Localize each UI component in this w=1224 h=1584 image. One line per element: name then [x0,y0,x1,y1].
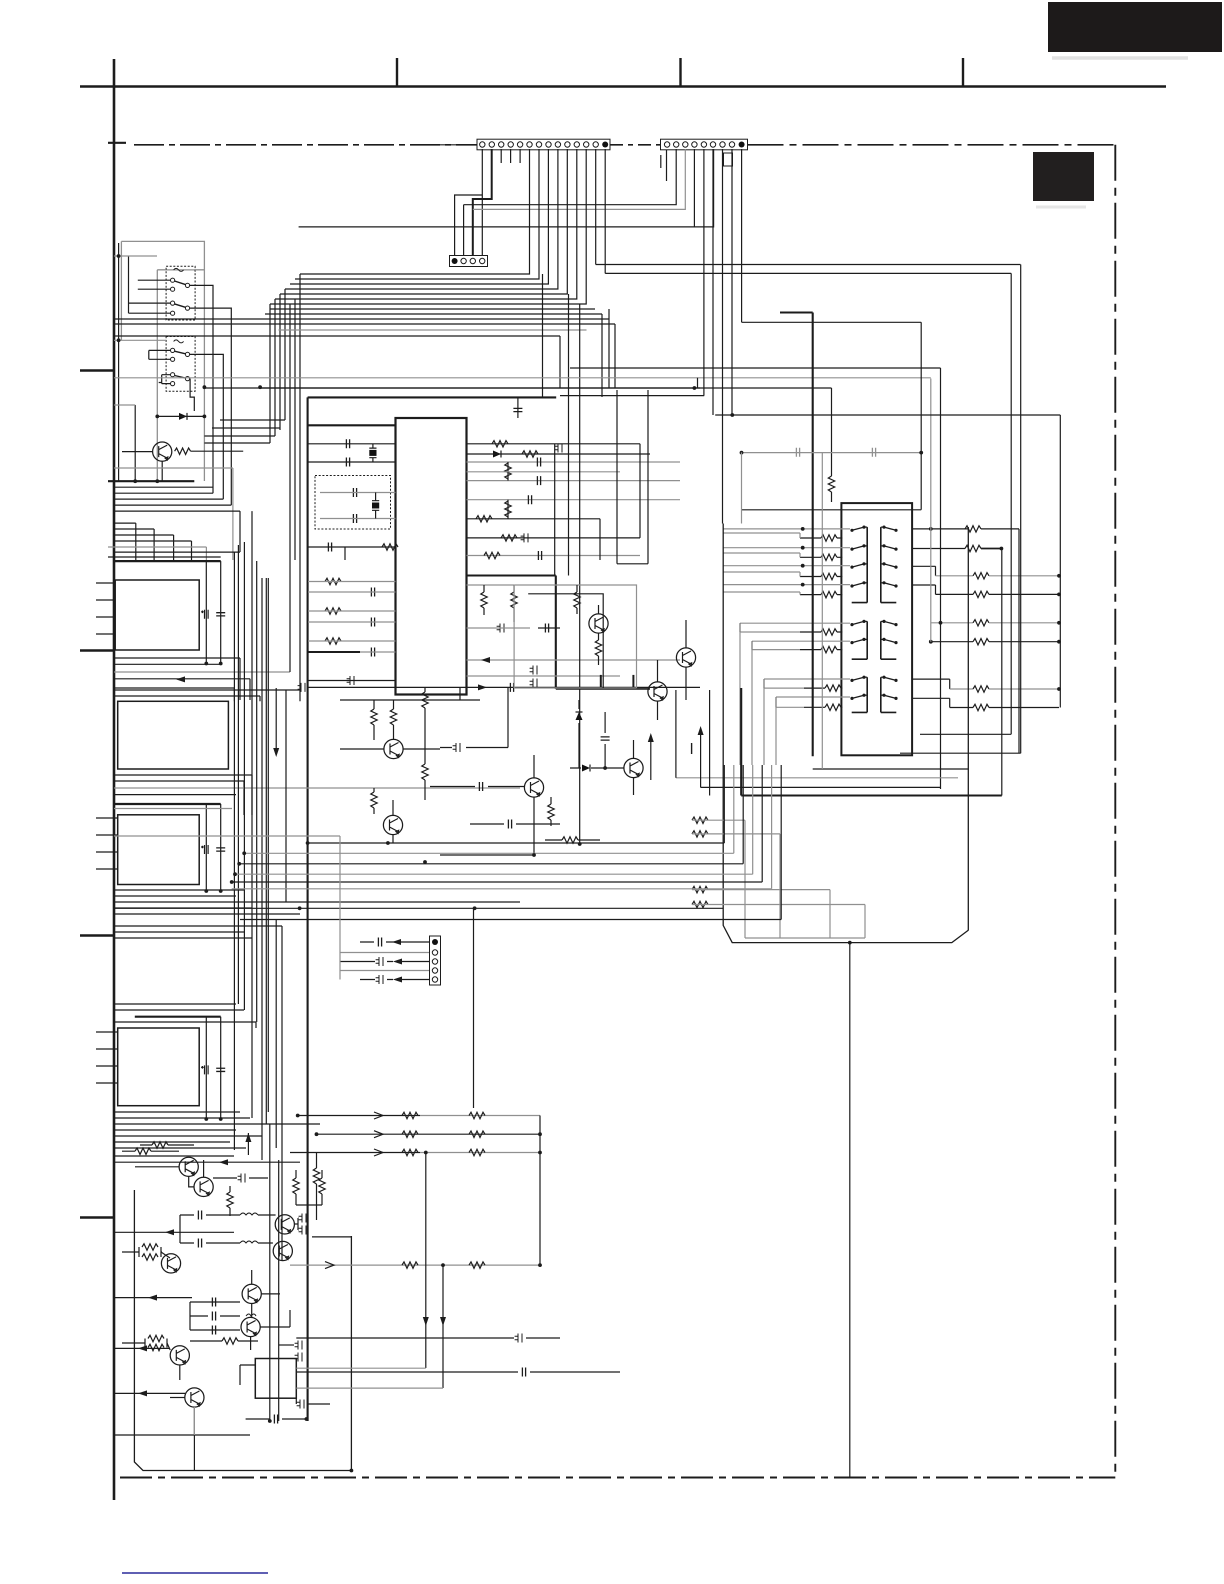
board border top left seg [134,144,477,146]
B3 cap wire a [205,804,207,891]
CN2 wire 703 down [703,149,705,396]
grey cap row 452 [742,452,922,454]
bottom container outline [134,1190,351,1471]
res R12 [481,592,487,608]
long row from left [299,149,714,227]
feeder jog rows group1 [723,533,800,595]
wire IC right r5 [467,518,601,520]
row 1265 [290,1264,540,1266]
res col left r6 [821,646,837,652]
res right row1 [912,528,969,530]
wire r13 [513,585,515,622]
wire Q4 stub [657,660,659,720]
row y552 [114,551,240,553]
vertical 822 grey [821,452,823,769]
long grey pair row a [114,835,340,837]
ferrite FB23 [297,1400,304,1409]
bold rail into IC [308,424,396,426]
cap C4 [346,439,349,448]
grey long row 1388 [296,1387,443,1389]
B1 cap wire a [205,561,207,663]
block B1 [115,580,199,650]
cap C8 [371,618,374,627]
transistor Q4 [648,682,667,701]
feeder rows group1 [723,529,850,585]
CN1 long vertical a [595,149,597,265]
transistor Q15 [241,1317,260,1336]
bus row 4 [235,765,753,874]
res R10 [501,535,517,541]
wire c14 [538,627,560,629]
IC2 box [255,1359,296,1399]
ferrite FB5 [530,666,537,675]
vertical 940 mid [940,368,942,789]
corner row 264 [596,264,1021,266]
res col left r5 [821,629,837,635]
wire C4 row [308,443,396,445]
wrap row 769 [813,768,969,770]
B3 cap Cb [216,848,225,851]
connector CN2 pins [664,142,744,148]
vertical 580 long [579,304,581,844]
ferrite FB1 [347,676,354,685]
arrow row 1232 [114,1231,234,1233]
right col dots [1057,574,1061,578]
B4 cap wire b [220,1017,222,1119]
wire IC right r1 [467,443,641,445]
wire into CN1 [440,144,477,146]
wire D1 row [157,415,204,417]
CN2 stub pin a [660,155,662,168]
board res r2 [692,831,708,837]
rows below B1 deep [114,690,300,701]
channel vertical 276 [275,920,277,1148]
CN2 wire 741 down [741,149,743,322]
bold vertical 741 low [740,688,742,796]
ferrite CN4 e [376,975,383,984]
vertical 676 [675,690,677,778]
CN1 vertical into IC b [566,293,568,295]
vertical 426 down [425,1153,427,1369]
long grey row 376 [114,377,931,379]
wire C2 [320,492,396,494]
block B3 [118,815,200,885]
CN1 bundle wire 5 [280,149,567,294]
row y557 [108,556,221,558]
relay RY1 box [166,266,195,320]
rows above B4 a [114,1004,256,1028]
wire bottom row 687 [308,686,700,688]
res R13 [511,592,517,608]
arrow row 1162 [114,1161,300,1163]
board border top right seg [748,144,1116,146]
res col left r8 [825,704,841,710]
grey box mid [514,585,636,688]
wire RY2 in row2 [149,358,171,360]
grey long row 1368 [296,1367,426,1369]
wire CN4 d [340,970,429,972]
res col left r4 [821,591,837,597]
wire IC right r7 [467,555,641,557]
channel vertical 244 [243,542,245,1010]
long row 319 [114,318,609,320]
CN1 bundle wire 4 [285,149,558,289]
board border top mid seg [610,144,661,146]
cap C15 [510,683,513,692]
CN2 wire 713 down [712,149,714,415]
frame tick top 1 [396,58,398,86]
page frame top rule [80,85,1166,88]
wrap row 734 [920,733,1011,735]
CN1 pin1 wire [481,149,483,256]
diode D6 up [576,712,583,720]
dots bottom [350,1469,354,1473]
bus row 919 [240,765,781,920]
cap C3 [353,514,356,523]
res R6 [492,441,508,447]
thin top row [260,387,700,389]
wire Q1 base [122,451,153,453]
res Q2 base [574,592,580,608]
wire to bottom border [849,943,851,1477]
rows below B4 [114,1112,320,1156]
right bracket a [912,566,936,576]
wire coil feed [157,269,204,271]
B4 cap dots [204,1117,208,1121]
wire R46 [122,1252,170,1258]
long row y387 [204,387,831,389]
ferrite FB4 [497,624,504,633]
board border bottom [120,1477,1115,1479]
corner row 395 [560,395,704,397]
wire RY2 out1 [190,354,224,499]
board res r3 [692,886,708,892]
res col left r1 [821,535,837,541]
relay RY1 coil [174,268,184,271]
long row 205-230 tails [602,309,615,397]
relay RY2 box [166,337,195,392]
res R8 [505,501,511,517]
coil L2 [240,1241,258,1243]
cap C21 [872,448,875,457]
CN1 bundle wire 3 [290,149,548,284]
connector CN1 pins [480,142,609,148]
bus row dots [306,841,310,845]
B1 cap wire b [220,561,222,663]
frame tick at border [108,142,126,144]
faint caption 2 [1036,206,1086,209]
bracket caps left [179,1215,181,1243]
bold row 689 [556,688,650,690]
CN1 pin2 wire bold [473,149,492,256]
cap C46 [274,1415,277,1424]
frame tick left B [80,649,114,651]
wire r1b [467,444,651,454]
long row 309 [270,308,595,310]
ferrite FB2 [555,444,562,453]
wire Q16 em [179,1365,181,1380]
connector CN3 body [450,256,488,267]
left stub rows B4 [96,1032,117,1083]
wrap row 789 [701,786,941,788]
res right row4 [936,593,974,595]
transistor Q10 [194,1177,213,1196]
B4 cap Ca [201,1065,208,1074]
vertical 473 down [473,908,475,1108]
CN2 pin wire 694 [693,149,695,227]
bundle tail bends [204,420,285,443]
bold vertical 815 ext [812,313,814,757]
bus vertical 1059 [1059,415,1061,708]
res R11 [484,552,500,558]
cap pair C40 [198,1211,201,1220]
frame tick left A [80,369,114,371]
wire r8 [507,500,509,519]
channel vertical 286 [285,690,287,902]
row y487 [114,486,213,488]
wire fb2 [559,443,561,446]
vertical 1011 long [1010,273,1012,734]
cap C7 [371,588,374,597]
row 388 dot [693,386,697,390]
cap C30 [601,737,610,740]
CN1 long wire p9 [557,288,559,290]
relay grey enclosure inner [157,270,204,481]
long link row a [464,149,677,205]
bundle left tails [270,289,285,443]
CN1 vertical into IC a [559,336,561,388]
grey vert 232.9 [232,468,234,560]
transistor Q11 [275,1215,294,1234]
rows above B3 grey [114,808,232,810]
cap C1 symbol [513,408,522,411]
wire RY1 out1 [190,285,213,493]
wire IC right low1 [467,659,681,661]
bus row 6 [232,765,772,889]
cap pair C41 [198,1239,201,1248]
dot board bottom [848,941,852,945]
long link row b [473,149,686,209]
cap CN4 a [378,938,381,947]
connector CN4 pins [432,939,438,982]
res R40 [135,1148,151,1154]
corner row 322 [742,321,922,323]
channel vertical 282 [281,926,283,1260]
row y523 [114,523,136,561]
res col left r7 [825,685,841,691]
bold rail top [308,396,557,398]
long row 330 grey [279,329,587,331]
left wire 128 vertical [128,256,130,313]
board border right vertical [1114,145,1116,1474]
cap C44 [212,1326,215,1335]
wire Q8 stub [392,800,394,843]
transistor Q3 [676,648,695,667]
res Rv [505,463,511,479]
wire into container right [312,1236,351,1238]
long row 314 [265,313,602,315]
block B2 [118,701,229,769]
wire rv [507,462,509,481]
arrow CN4 c [393,959,402,965]
connector CN2 body [661,139,748,150]
wire IC2 top [240,1365,255,1385]
bold stub row 652 [308,651,360,653]
res R7 [522,451,538,457]
ferrite FB6 [530,679,537,688]
IC U1 box [396,418,467,695]
wire Q14 net [252,1270,280,1318]
res R42 [152,1142,168,1148]
diode D5 [582,765,590,772]
grey row 256 [114,255,157,257]
frame tick left D [80,1216,114,1218]
arrow 687 [478,684,487,690]
left stub rows upper [96,583,115,634]
wire IC right r6 [467,537,641,539]
wire row 680 [308,680,396,682]
caps box rows [190,1302,240,1330]
transistor Q9 [179,1157,198,1176]
wire row 547 [308,547,396,560]
bold vertical 556 [555,576,557,689]
vertical 1001 long [1001,549,1003,796]
res right row5 [931,622,973,624]
cap Q6 in [479,782,482,791]
right bracket d [912,698,950,707]
res Q5 a [371,709,377,725]
res R30 [562,837,578,843]
row y511 [114,510,240,512]
channel vertical 238 [237,545,239,1004]
row y541 [114,541,192,561]
bold row 481 [108,480,194,482]
right bracket c [912,679,950,689]
channel vertical 290 [289,304,291,672]
wire row 641 [308,641,396,652]
cap C11 [537,476,540,485]
grey row 405 [114,404,135,406]
wire RY1 out2 [190,308,232,505]
frame tick left C [80,934,114,936]
row 509 left [742,509,922,511]
CN3 riser b [463,205,465,256]
vertical 710b [709,690,711,796]
ferrite FB21 [295,1341,302,1350]
rows below B2 c [114,787,520,789]
connector CN2 key box [724,153,733,166]
wire X2 stem [372,444,374,462]
crystal X1 [372,501,379,511]
arrow up b [698,726,704,735]
B1 cap Ca [201,610,208,619]
vertical 568 long [568,294,570,576]
channel vertical 262 [261,578,263,1160]
feeder rows group3 [764,679,850,707]
dash mark [691,743,693,754]
res col left r2 [821,554,837,560]
wire r12 [483,585,485,615]
res Q5 b [390,709,396,725]
transistor Q16 [170,1346,189,1365]
CN1 long vertical b [604,149,606,273]
B1 cap Cb [216,613,225,616]
bold rail above B1 [114,560,221,562]
switch group 2 [850,620,897,659]
wire RY2 bracket [159,375,171,384]
wire Q6 em [533,755,535,855]
CN2 wire 732 down [731,149,733,415]
wire vert 240 b1 [239,511,241,552]
res R4 [325,608,341,614]
res R20 vert [828,476,834,492]
res Q8 a [371,792,377,808]
vertical 1019 short [1018,529,1020,753]
arrow into 660 [481,657,490,663]
rows below B2 a [114,775,252,815]
cap C6 [328,543,331,552]
row y499 [114,498,223,500]
right bracket b [912,585,936,594]
channel vertical 252 [251,511,253,1118]
faint caption 1 [1052,56,1188,60]
transistor Q7 [624,758,643,777]
row 1435 [114,1434,250,1436]
CN2 wire 722 down [722,149,724,524]
cap C10 [537,458,540,467]
page frame left rule [113,59,116,1500]
wire IC right low2 [467,675,621,677]
arrow up a [648,733,654,742]
wire Q7 stub [633,740,635,795]
feeder rows group2 [740,623,850,649]
wire Q6 row [440,854,534,856]
wrap row 753 [900,752,1021,754]
bold rail above B4 [135,1016,221,1018]
channel vertical 234 [233,552,235,1150]
wire r džip [467,584,515,586]
wire 687 drop [507,687,509,700]
wire Q16 base [122,1343,170,1350]
inner box mid [528,594,603,688]
channel vertical 270 [269,1124,271,1421]
channel vertical 268 [267,578,269,1112]
res R45 [227,1192,233,1208]
row y493 [114,492,213,494]
relay RY2 sw1 [171,348,190,361]
vertical 443 down [442,1265,444,1388]
res right row6 [931,641,973,643]
wire CN4 b [340,952,429,954]
footer blue rule [122,1572,268,1574]
feeder long verticals [740,623,776,765]
board res r4 [692,901,708,907]
res pair R44 [319,1178,325,1194]
wire Q9 in [135,1166,179,1168]
ferrite FB20 [238,1174,245,1183]
res R2 [382,544,398,550]
rows below B2 d [114,794,236,796]
resistor R1 [175,448,191,454]
row y505 [114,504,231,506]
corner row 415 [715,414,1060,416]
transistor Q1 [153,442,172,461]
B3 cap dots [204,889,208,893]
channel vertical 257 [256,561,258,1022]
wire Q3 stub [685,620,687,700]
transistor Q5 [384,739,403,758]
left wire 148 vertical [148,350,150,359]
